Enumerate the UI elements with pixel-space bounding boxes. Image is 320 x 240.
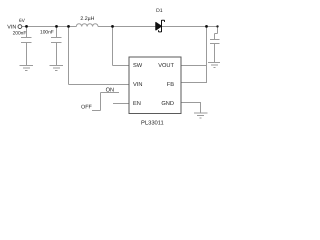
svg-text:SW: SW [133,63,143,69]
diode D1 triangle [156,23,161,30]
svg-text:GND: GND [161,101,174,107]
wire GND pin horizontal [181,102,201,104]
node dot output cap corner [216,25,218,27]
capacitor C2 lead bottom [56,43,58,66]
switch ON bar [101,92,120,94]
svg-text:EN: EN [133,101,141,107]
svg-text:2.2µH: 2.2µH [80,16,94,22]
switch OFF bar [92,110,101,112]
capacitor C1 lead bottom [26,43,28,66]
ground under C2 [50,65,64,67]
svg-text:100nF: 100nF [40,30,54,36]
IC U1 PL33011 box [129,57,181,113]
wire right rail vertical [206,27,208,83]
capacitor C3 lead bottom [214,44,216,63]
wire EN pin [113,103,129,105]
diode D1 schottky cathode bar [159,20,165,32]
svg-text:OFF: OFF [81,105,92,111]
switch vertical [100,93,102,111]
capacitor C3 output lead top [214,34,216,40]
node dot VOUT branch [205,25,208,28]
svg-text:ON: ON [106,88,115,94]
capacitor C2 plates [51,37,62,39]
svg-text:200nF: 200nF [13,31,27,37]
wire SW branch vertical [112,27,114,66]
capacitor C2 100nF lead top [56,27,58,38]
node dot VIN branch [67,25,70,28]
node dot C1 tap [25,25,28,28]
inductor L1 coil [76,24,98,27]
capacitor C3 plates [210,39,220,41]
wire D1 cathode to right corner [98,26,218,28]
svg-text:VIN: VIN [133,82,142,88]
node dot SW branch [111,25,114,28]
wire top rail VIN to D1 anode [22,26,77,28]
wire output cap jog [217,27,219,34]
capacitor C1 200nF lead top [26,27,28,38]
ground under C1 [20,65,34,67]
wire GND pin vertical [200,103,202,113]
wire VOUT pin to right rail [181,65,207,67]
svg-text:PL33011: PL33011 [141,120,164,127]
wire under diode [150,26,162,28]
svg-text:VIN: VIN [7,24,16,30]
wire VIN branch horizontal to VIN pin [69,84,130,86]
wire VIN branch vertical [68,27,70,85]
svg-text:6V: 6V [19,18,26,24]
svg-text:VOUT: VOUT [158,63,174,69]
node dot C2 tap [55,25,58,28]
svg-text:FB: FB [167,82,174,88]
ground under C3 [208,62,220,64]
ground at GND pin [194,112,208,114]
wire FB pin to right rail [181,82,207,84]
terminal circle VIN [18,25,22,29]
capacitor C1 plates [21,37,32,39]
wire SW branch horizontal to SW pin [113,65,130,67]
svg-text:D1: D1 [156,8,163,14]
